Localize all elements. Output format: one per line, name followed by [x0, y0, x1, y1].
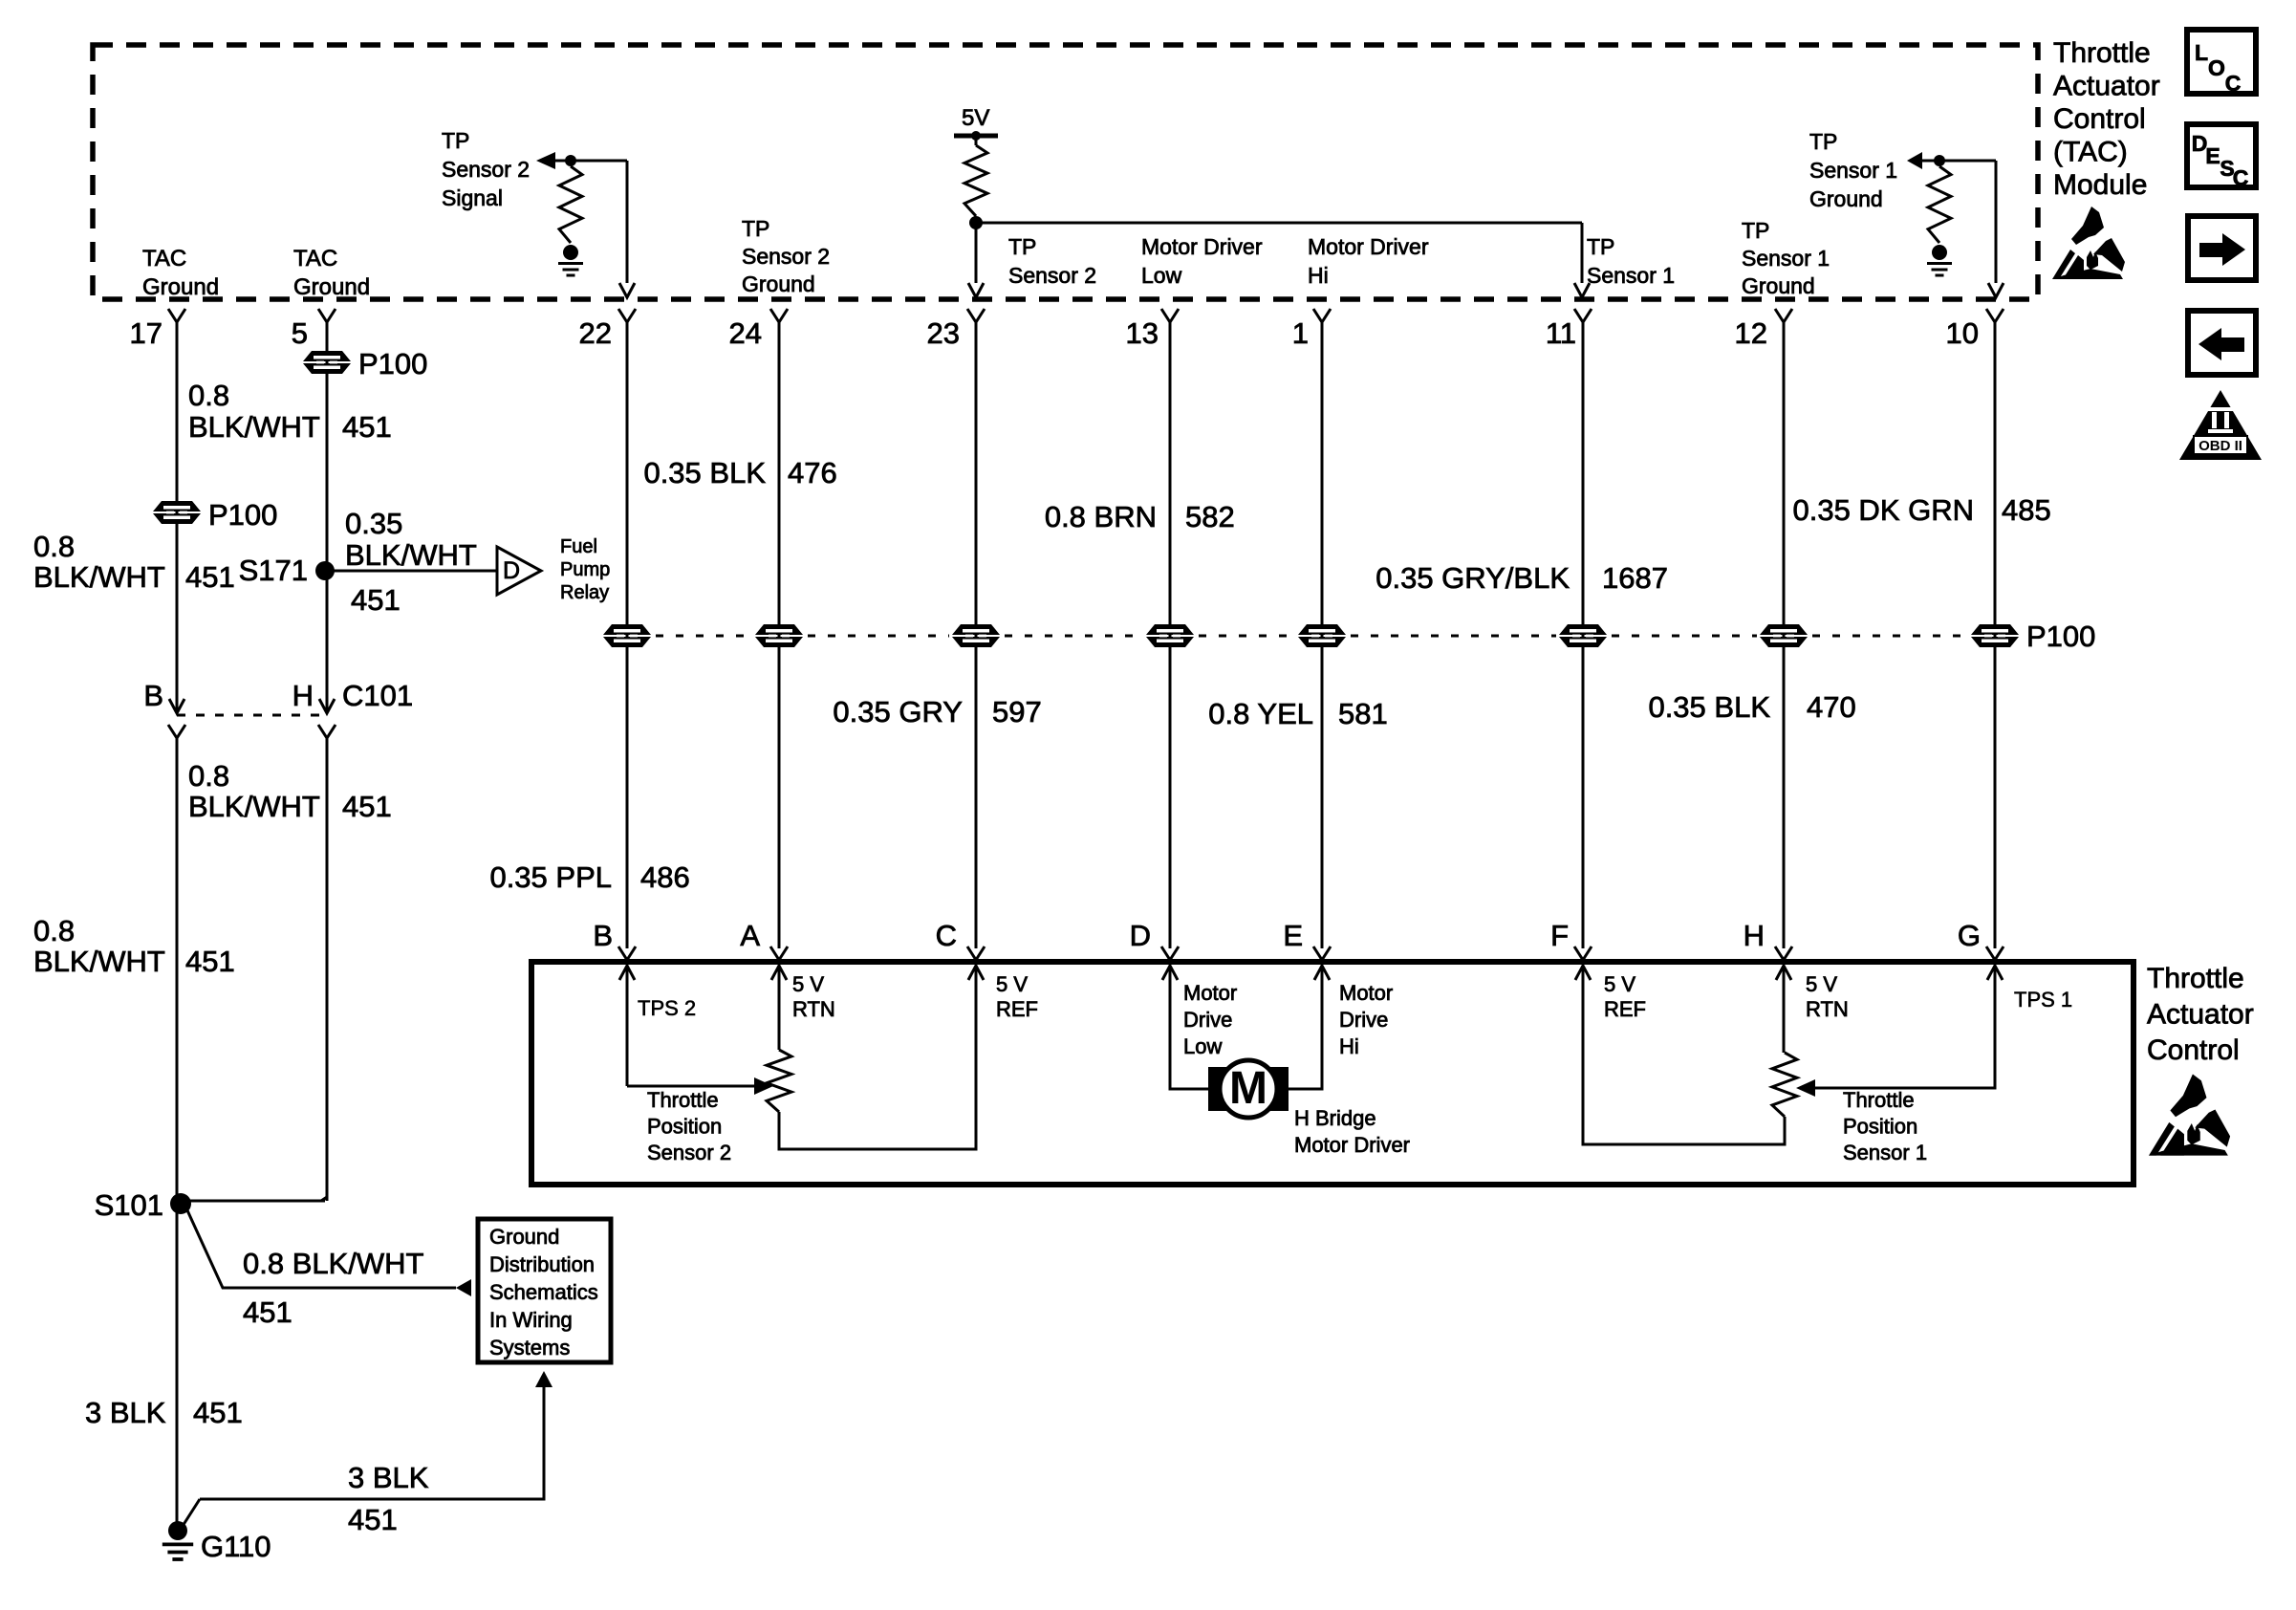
wire pin24 down to TAC box: [778, 322, 781, 948]
pin 5 connector fork: [318, 309, 336, 322]
arrow up inside box at pin D: [1162, 966, 1178, 980]
svg-text:5 V: 5 V: [996, 972, 1028, 996]
arrow up inside box at pin F: [1575, 966, 1591, 980]
svg-text:Ground: Ground: [142, 274, 219, 300]
svg-text:S101: S101: [95, 1188, 163, 1222]
TAC box pin A fork: [770, 946, 788, 960]
svg-text:P100: P100: [2026, 620, 2095, 653]
svg-text:Throttle: Throttle: [2053, 37, 2151, 69]
svg-text:Motor Driver: Motor Driver: [1308, 234, 1429, 259]
svg-text:451: 451: [243, 1295, 292, 1329]
svg-text:Sensor 2: Sensor 2: [647, 1141, 731, 1164]
label 5 V RTN (H): [1806, 972, 1849, 1021]
resistor R2 (5V pull-up): [964, 145, 987, 216]
svg-text:Drive: Drive: [1339, 1008, 1388, 1032]
arrow into pin 23: [968, 283, 984, 297]
svg-text:Actuator: Actuator: [2053, 71, 2160, 102]
pin 13 connector fork: [1161, 309, 1179, 322]
svg-text:Control: Control: [2147, 1034, 2240, 1066]
label Throttle Position Sensor 2: [647, 1088, 731, 1164]
svg-text:12: 12: [1735, 316, 1767, 350]
svg-text:A: A: [740, 919, 760, 952]
svg-text:Throttle: Throttle: [2147, 963, 2244, 994]
svg-text:L: L: [2195, 40, 2208, 65]
label TAC Ground (pin 5): [293, 246, 370, 300]
pin 11 connector fork: [1574, 309, 1592, 322]
svg-text:Relay: Relay: [560, 582, 609, 603]
wire TPS2 signal inside box: [626, 966, 629, 1086]
wire Motor Drive Low to motor: [1170, 966, 1210, 1089]
svg-text:Ground: Ground: [1742, 273, 1815, 298]
svg-text:Distribution: Distribution: [489, 1252, 595, 1276]
svg-text:Low: Low: [1183, 1034, 1222, 1058]
connector P100 row at x=1383: [1298, 624, 1346, 647]
pin 1 connector fork: [1313, 309, 1331, 322]
svg-text:Sensor 1: Sensor 1: [1742, 246, 1830, 271]
svg-text:C: C: [2225, 71, 2242, 96]
arrow into pin 11: [1574, 283, 1590, 297]
junction node below R2: [969, 216, 983, 229]
arrow up inside box at pin B: [619, 966, 635, 980]
svg-text:Sensor 1: Sensor 1: [1587, 263, 1675, 288]
connector P100 on pin17 wire: [153, 501, 201, 524]
svg-text:TPS 2: TPS 2: [638, 996, 696, 1020]
wire pin5 bottom into S101: [181, 1200, 325, 1203]
svg-text:RTN: RTN: [1806, 997, 1849, 1021]
svg-text:E: E: [2205, 143, 2220, 168]
connector P100 row at x=2087: [1971, 624, 2019, 647]
svg-text:Control: Control: [2053, 103, 2146, 135]
svg-text:3 BLK: 3 BLK: [85, 1396, 166, 1429]
icon ESD sensitive (top): [2052, 207, 2125, 279]
svg-text:0.35 PPL: 0.35 PPL: [489, 860, 612, 894]
svg-text:0.35 BLK: 0.35 BLK: [1648, 690, 1770, 724]
arrow up inside box at pin G: [1987, 966, 2003, 980]
svg-text:Hi: Hi: [1308, 263, 1329, 288]
svg-text:C: C: [936, 919, 957, 952]
svg-text:BLK/WHT: BLK/WHT: [33, 945, 165, 978]
connector P100 on pin5 wire: [303, 351, 351, 374]
wire junction to pin 11 branch: [976, 222, 1582, 225]
svg-text:BLK/WHT: BLK/WHT: [345, 538, 477, 572]
svg-text:Motor Driver: Motor Driver: [1141, 234, 1263, 259]
svg-text:597: 597: [992, 695, 1042, 729]
wire 5V to resistor: [975, 136, 978, 145]
svg-text:P100: P100: [358, 347, 427, 381]
arrow up inside box at pin E: [1314, 966, 1330, 980]
svg-text:Throttle: Throttle: [647, 1088, 719, 1112]
arrow pin5 into C101: [319, 699, 335, 713]
wire pin17 (0.8 BLK/WHT 451) upper: [176, 322, 179, 710]
wire pin5 lower to S101: [326, 738, 329, 1201]
svg-text:1: 1: [1292, 316, 1309, 350]
wire 3 BLK 451 bottom run: [200, 1387, 544, 1499]
resistor R1 (TP sensor 2 pull-up): [559, 166, 582, 243]
arrow up inside box at pin A: [771, 966, 787, 980]
svg-text:5 V: 5 V: [792, 972, 824, 996]
pin 10 connector fork: [1986, 309, 2004, 322]
label 5 V REF (C): [996, 972, 1038, 1021]
svg-text:Sensor 1: Sensor 1: [1843, 1141, 1927, 1164]
wire pin17 lower to G110: [176, 738, 179, 1525]
svg-text:451: 451: [342, 410, 392, 444]
ground (internal, left): [558, 245, 583, 275]
wire pin1 down to TAC box: [1321, 322, 1324, 948]
svg-text:Throttle: Throttle: [1843, 1088, 1915, 1112]
svg-text:TP: TP: [1587, 234, 1614, 259]
svg-text:582: 582: [1185, 500, 1235, 533]
svg-text:Ground: Ground: [489, 1225, 559, 1249]
potentiometer Throttle Position Sensor 2: [767, 1050, 791, 1112]
svg-text:Actuator: Actuator: [2147, 999, 2254, 1031]
svg-text:451: 451: [193, 1396, 243, 1429]
svg-text:0.8: 0.8: [188, 379, 229, 412]
svg-text:5 V: 5 V: [1806, 972, 1837, 996]
wire pin23 down to TAC box: [975, 322, 978, 948]
svg-text:H Bridge: H Bridge: [1294, 1106, 1376, 1130]
5V supply bar: [954, 134, 998, 139]
arrowhead up into ground distribution box: [535, 1371, 552, 1387]
svg-text:10: 10: [1946, 316, 1979, 350]
svg-text:451: 451: [185, 560, 235, 594]
splice S171: [315, 561, 335, 580]
svg-text:0.8: 0.8: [33, 914, 75, 947]
svg-text:451: 451: [348, 1503, 398, 1536]
svg-text:0.8 BRN: 0.8 BRN: [1045, 500, 1157, 533]
P100 connector row dashed line: [656, 635, 752, 638]
pin 17 connector fork: [168, 309, 185, 322]
svg-text:Sensor 2: Sensor 2: [1008, 263, 1096, 288]
TPS1 wiper arrowhead: [1796, 1079, 1815, 1097]
TAC box pin H fork: [1775, 946, 1792, 960]
svg-text:M: M: [1229, 1063, 1267, 1114]
svg-text:0.35: 0.35: [345, 507, 402, 540]
corner pin5 wire into S101: [321, 1190, 327, 1201]
label 0.35 BLK/WHT (S171): [345, 507, 477, 572]
wire TPS1 (G) to wiper: [1815, 966, 1995, 1088]
icon right-arrow box: [2188, 216, 2256, 280]
label TP Sensor 2 Signal: [442, 128, 530, 210]
icon left-arrow box: [2188, 311, 2256, 375]
connector P100 row at x=815: [755, 624, 803, 647]
svg-text:In Wiring: In Wiring: [489, 1308, 573, 1332]
label 0.8 BLK/WHT (pin17 lower): [33, 914, 165, 978]
svg-text:REF: REF: [1604, 997, 1646, 1021]
arrow into pin 10: [1988, 283, 2004, 297]
wire to TPS2 wiper: [627, 1085, 754, 1088]
svg-text:Low: Low: [1141, 263, 1182, 288]
icon OBD II triangle: [2179, 390, 2262, 460]
svg-text:Ground: Ground: [742, 272, 815, 296]
wire 5V RTN (H) to pot1 top: [1783, 966, 1786, 1053]
C101 dashed line: [177, 714, 327, 717]
connector P100 row at x=1224: [1146, 624, 1194, 647]
wire down to pin 10: [1995, 161, 1998, 283]
connector P100 row at x=1021: [952, 624, 1000, 647]
svg-text:TP: TP: [442, 128, 469, 153]
label 0.8 BLK/WHT (pin17): [33, 530, 165, 594]
svg-text:17: 17: [130, 316, 162, 350]
label Throttle Actuator Control title: [2147, 963, 2254, 1066]
svg-text:476: 476: [788, 456, 837, 490]
potentiometer Throttle Position Sensor 1: [1772, 1053, 1797, 1117]
svg-text:C101: C101: [342, 679, 413, 712]
label Throttle Position Sensor 1: [1843, 1088, 1927, 1164]
svg-text:0.35 BLK: 0.35 BLK: [643, 456, 766, 490]
svg-text:TAC: TAC: [293, 246, 337, 272]
ground (internal, right): [1927, 245, 1952, 275]
svg-text:1687: 1687: [1602, 561, 1668, 595]
svg-text:BLK/WHT: BLK/WHT: [188, 410, 320, 444]
svg-text:451: 451: [342, 790, 392, 823]
svg-text:TP: TP: [742, 216, 769, 241]
svg-text:5 V: 5 V: [1604, 972, 1635, 996]
svg-text:F: F: [1550, 919, 1569, 952]
svg-text:451: 451: [351, 583, 401, 617]
label TP Sensor 2 (pin 23): [1008, 234, 1096, 288]
svg-text:486: 486: [640, 860, 690, 894]
wire Motor Drive Hi to motor: [1287, 966, 1322, 1089]
svg-text:D: D: [1130, 919, 1151, 952]
TAC box pin D fork: [1161, 946, 1179, 960]
label 5 V REF (F): [1604, 972, 1646, 1021]
svg-text:3 BLK: 3 BLK: [348, 1461, 429, 1494]
label TP Sensor 1 Ground (pin 12): [1742, 218, 1830, 298]
label Motor Drive Hi (E): [1339, 981, 1393, 1058]
svg-text:REF: REF: [996, 997, 1038, 1021]
svg-text:Motor: Motor: [1339, 981, 1393, 1005]
svg-text:Position: Position: [647, 1115, 722, 1139]
label Motor Driver Low (pin 13): [1141, 234, 1263, 288]
wire TP sensor 2 signal horizontal: [553, 160, 627, 163]
ground G110: [162, 1521, 193, 1559]
svg-text:TP: TP: [1008, 234, 1036, 259]
svg-text:13: 13: [1126, 316, 1159, 350]
svg-text:0.8: 0.8: [33, 530, 75, 563]
svg-text:Module: Module: [2053, 169, 2147, 201]
svg-text:Ground: Ground: [293, 274, 370, 300]
svg-text:P100: P100: [208, 498, 277, 532]
svg-text:E: E: [1283, 919, 1303, 952]
junction 5V bar: [971, 131, 981, 141]
svg-text:(TAC): (TAC): [2053, 137, 2128, 168]
fork below C101 pin B: [168, 725, 185, 738]
icon DESC box: [2187, 124, 2256, 187]
label H Bridge Motor Driver: [1294, 1106, 1410, 1157]
TAC box pin G fork: [1986, 946, 2004, 960]
TAC box pin B fork: [618, 946, 636, 960]
wire diagonal into G110: [178, 1499, 200, 1534]
svg-text:H: H: [292, 679, 314, 712]
svg-text:BLK/WHT: BLK/WHT: [33, 560, 165, 594]
svg-text:H: H: [1744, 919, 1765, 952]
svg-text:Hi: Hi: [1339, 1034, 1359, 1058]
svg-text:G110: G110: [201, 1530, 271, 1563]
svg-text:22: 22: [579, 316, 612, 350]
svg-text:485: 485: [2002, 493, 2051, 527]
Throttle Actuator Control box: [531, 962, 2134, 1185]
TAC box pin F fork: [1574, 946, 1592, 960]
TAC module dashed box: [93, 45, 2038, 299]
svg-text:Sensor 2: Sensor 2: [442, 157, 530, 182]
wire down to pin 11: [1581, 223, 1584, 283]
junction on TP sensor 2 signal: [565, 155, 576, 166]
svg-text:Ground: Ground: [1809, 186, 1883, 211]
wire pin5 (0.8 BLK/WHT 451) upper: [326, 322, 329, 710]
pin 24 connector fork: [770, 309, 788, 322]
pin 12 connector fork: [1775, 309, 1792, 322]
arrow up inside box at pin H: [1776, 966, 1791, 980]
svg-text:G: G: [1958, 919, 1981, 952]
svg-text:Pump: Pump: [560, 559, 610, 580]
svg-text:C: C: [2233, 165, 2249, 190]
svg-text:Sensor 2: Sensor 2: [742, 244, 830, 269]
TPS2 wiper arrowhead: [754, 1077, 773, 1095]
label Ground Distribution Schematics In Wiring Systems: [489, 1225, 598, 1360]
wire pin10 down to TAC box: [1994, 322, 1997, 948]
wire pin13 down to TAC box: [1169, 322, 1172, 948]
svg-text:RTN: RTN: [792, 997, 835, 1021]
junction on TP sensor 1 ground: [1934, 155, 1945, 166]
svg-text:TAC: TAC: [142, 246, 186, 272]
svg-text:D: D: [503, 557, 520, 584]
pin 22 connector fork: [618, 309, 636, 322]
Ground Distribution reference box: [478, 1219, 611, 1362]
connector P100 row at x=656: [603, 624, 651, 647]
wire TP sensor 1 ground horizontal: [1920, 160, 1996, 163]
svg-text:OBD II: OBD II: [2199, 438, 2242, 454]
fork below C101 pin H: [318, 725, 336, 738]
arrowhead TP Sensor 1 Ground (points left): [1907, 152, 1922, 169]
svg-text:5V: 5V: [962, 105, 989, 131]
arrow up inside box at pin C: [968, 966, 984, 980]
wire pin12 down to TAC box: [1783, 322, 1786, 948]
svg-text:5: 5: [292, 316, 308, 350]
wire 5V REF (F) to pot1 bottom: [1583, 966, 1785, 1144]
svg-text:Schematics: Schematics: [489, 1280, 598, 1304]
svg-text:24: 24: [729, 316, 762, 350]
svg-text:B: B: [143, 679, 163, 712]
motor M (H bridge): [1208, 1067, 1229, 1111]
svg-text:0.35 DK GRN: 0.35 DK GRN: [1792, 493, 1974, 527]
label Motor Drive Low (D): [1183, 981, 1237, 1058]
svg-text:B: B: [593, 919, 613, 952]
arrowhead TP Sensor 2 Signal (points left): [536, 152, 555, 169]
label TAC Ground (pin 17): [142, 246, 219, 300]
svg-text:470: 470: [1807, 690, 1856, 724]
label TAC module title: [2053, 37, 2160, 201]
label 5 V RTN (A): [792, 972, 835, 1021]
connector P100 row at x=1656: [1559, 624, 1607, 647]
svg-text:581: 581: [1338, 697, 1388, 730]
svg-text:Signal: Signal: [442, 185, 503, 210]
wire down to pin 22: [626, 161, 629, 283]
pin 23 connector fork: [967, 309, 985, 322]
label 0.8 BLK/WHT (pin5 upper): [188, 379, 320, 444]
svg-text:0.8: 0.8: [188, 759, 229, 793]
svg-text:TP: TP: [1809, 129, 1837, 154]
TAC box pin C fork: [967, 946, 985, 960]
svg-text:TPS 1: TPS 1: [2014, 988, 2072, 1012]
off-page triangle D (fuel pump relay): [497, 547, 541, 595]
svg-text:0.35 GRY/BLK: 0.35 GRY/BLK: [1375, 561, 1570, 595]
svg-text:O: O: [2208, 55, 2225, 80]
svg-text:Fuel: Fuel: [560, 536, 597, 557]
label TP Sensor 1 (pin 11): [1587, 234, 1675, 288]
icon ESD sensitive (bottom): [2149, 1074, 2230, 1155]
arrow pin17 into C101: [169, 699, 184, 713]
wire pot2 bottom to 5V REF (C): [779, 966, 976, 1149]
svg-text:451: 451: [185, 945, 235, 978]
TAC box pin E fork: [1313, 946, 1331, 960]
svg-text:0.8 BLK/WHT: 0.8 BLK/WHT: [243, 1247, 424, 1280]
svg-text:0.35 GRY: 0.35 GRY: [833, 695, 963, 729]
svg-text:23: 23: [927, 316, 960, 350]
svg-text:11: 11: [1546, 316, 1576, 350]
svg-text:TP: TP: [1742, 218, 1769, 243]
wire 5V RTN to pot top: [778, 966, 781, 1050]
svg-text:BLK/WHT: BLK/WHT: [188, 790, 320, 823]
svg-text:Position: Position: [1843, 1115, 1917, 1139]
svg-text:S171: S171: [239, 554, 308, 587]
arrow into pin 22: [619, 283, 635, 297]
svg-text:Drive: Drive: [1183, 1008, 1232, 1032]
label Motor Driver Hi (pin 1): [1308, 234, 1429, 288]
icon LOC box: [2187, 30, 2256, 94]
label TP Sensor 2 Ground (pin 24): [742, 216, 830, 296]
wire S171 to fuel pump relay: [325, 570, 497, 573]
wire pin22 down to TAC box: [626, 322, 629, 948]
label Fuel Pump Relay: [560, 536, 610, 603]
svg-text:Sensor 1: Sensor 1: [1809, 158, 1897, 183]
wire S101 to ground distribution ref: [187, 1210, 456, 1288]
resistor R3 (TP sensor 1): [1928, 166, 1951, 243]
svg-text:Motor Driver: Motor Driver: [1294, 1133, 1410, 1157]
svg-text:0.8 YEL: 0.8 YEL: [1208, 697, 1313, 730]
svg-text:Systems: Systems: [489, 1336, 570, 1360]
wire pin11 down to TAC box: [1582, 322, 1585, 948]
wire down to pin 23: [975, 223, 978, 283]
splice S101: [170, 1193, 191, 1214]
svg-text:Motor: Motor: [1183, 981, 1237, 1005]
arrowhead to ground distribution (points left): [456, 1279, 471, 1296]
label 0.8 BLK/WHT (pin5 below C101): [188, 759, 320, 823]
connector P100 row at x=1866: [1760, 624, 1808, 647]
label TP Sensor 1 Ground (internal): [1809, 129, 1897, 211]
